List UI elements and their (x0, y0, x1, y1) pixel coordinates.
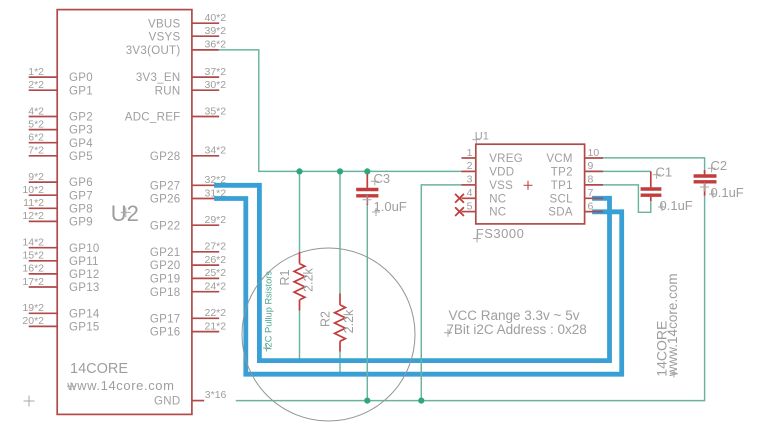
svg-text:9: 9 (588, 160, 594, 172)
U1 pin 2 (VDD) (462, 160, 515, 178)
svg-text:9*2: 9*2 (28, 171, 44, 183)
wire: C3 bottom lead to GND rail (366, 204, 368, 401)
wire: R1 top lead to 3V3 rail (299, 171, 301, 252)
note: I2C pullup resistors (rotated, teal) (263, 271, 274, 352)
svg-text:www.14core.com: www.14core.com (66, 378, 174, 393)
svg-text:VSYS: VSYS (149, 31, 181, 43)
U2 pin 9*2 (GP6) (28, 171, 93, 189)
svg-text:22*2: 22*2 (205, 307, 227, 319)
U2 pin 11*2 (GP8) (23, 197, 93, 215)
U2 pin 22*2 (GP17) (150, 307, 226, 325)
U1 pin 4 (NC) (455, 187, 506, 205)
U1 value label FS3000 (473, 226, 524, 243)
svg-text:5: 5 (467, 200, 473, 212)
svg-text:3*16: 3*16 (205, 389, 227, 401)
svg-text:VCC Range 3.3v ~ 5v: VCC Range 3.3v ~ 5v (449, 308, 580, 323)
U2 pin 36*2 (3V3(OUT)) (126, 39, 227, 57)
svg-text:NC: NC (489, 207, 506, 219)
svg-text:GP14: GP14 (69, 308, 100, 320)
wire: GND rail from U2 GND pin to C2 bottom (237, 195, 705, 400)
svg-text:FS3000: FS3000 (476, 226, 525, 241)
svg-text:GP3: GP3 (69, 125, 93, 137)
U1 reference label (472, 130, 489, 143)
svg-text:GP17: GP17 (150, 313, 181, 325)
svg-text:35*2: 35*2 (205, 105, 227, 117)
svg-text:19*2: 19*2 (22, 302, 44, 314)
junction: 3V3 rail / R1 (296, 168, 302, 174)
svg-text:GP13: GP13 (69, 282, 100, 294)
svg-text:3: 3 (467, 174, 473, 186)
svg-text:40*2: 40*2 (205, 12, 227, 24)
svg-text:2: 2 (467, 160, 473, 172)
wire: R2 top lead to 3V3 rail (339, 171, 341, 293)
svg-text:3V3(OUT): 3V3(OUT) (126, 45, 181, 57)
U1 pin 9 (TP2) (551, 160, 603, 178)
svg-text:SDA: SDA (548, 207, 573, 219)
svg-text:26*2: 26*2 (205, 254, 227, 266)
U2 pin 1*2 (GP0) (28, 66, 93, 84)
wire: C1 bottom lead (650, 201, 652, 213)
svg-text:www.14core.com: www.14core.com (665, 273, 680, 377)
svg-text:10*2: 10*2 (22, 184, 44, 196)
svg-text:C2: C2 (711, 158, 728, 173)
wire: VCM (U1 pin 10) to C2 (603, 158, 705, 174)
svg-text:GP5: GP5 (69, 151, 93, 163)
svg-text:U2: U2 (111, 201, 139, 226)
junction: GND rail / VSS (418, 398, 424, 404)
svg-text:12*2: 12*2 (22, 210, 44, 222)
U2 reference label (111, 201, 139, 226)
svg-text:21*2: 21*2 (205, 320, 227, 332)
svg-text:34*2: 34*2 (205, 145, 227, 157)
U1 pin 6 (SDA) (548, 200, 603, 218)
annotation circle around pull-up resistors (242, 248, 415, 421)
C3 name label (371, 171, 390, 186)
svg-text:GP0: GP0 (69, 72, 93, 84)
capacitor C3 (356, 174, 378, 205)
U2 pin 30*2 (RUN) (155, 79, 227, 97)
svg-text:SCL: SCL (550, 193, 574, 205)
junction: GND rail / C3 (364, 398, 370, 404)
svg-text:TP2: TP2 (551, 167, 573, 179)
resistor R2 (335, 294, 346, 352)
svg-text:1: 1 (467, 147, 473, 159)
svg-text:C3: C3 (374, 171, 391, 186)
svg-text:R2: R2 (318, 311, 332, 327)
wire: SCL bus from U2 GP27 to U1 SCL (thick blue) (217, 185, 610, 360)
U2 pin 2*2 (GP1) (28, 79, 93, 97)
C1 name label (653, 164, 673, 179)
U2 pin 27*2 (GP21) (150, 241, 226, 259)
svg-text:39*2: 39*2 (205, 25, 227, 37)
svg-text:5*2: 5*2 (28, 118, 44, 130)
svg-text:7Bit i2C Address : 0x28: 7Bit i2C Address : 0x28 (446, 322, 586, 337)
svg-text:7*2: 7*2 (28, 145, 44, 157)
svg-text:GP22: GP22 (150, 220, 181, 232)
wire: R2 bottom lead to SDA bus (339, 352, 341, 373)
svg-text:8: 8 (588, 174, 594, 186)
svg-text:14*2: 14*2 (22, 237, 44, 249)
U1 pin 5 (NC) (455, 200, 506, 218)
U2 pin 19*2 (GP14) (22, 302, 100, 320)
svg-text:VCM: VCM (546, 153, 572, 165)
U2 pin 26*2 (GP20) (150, 254, 226, 272)
IC U1 body (FS3000) (476, 144, 585, 224)
U1 pin 1 (VREG) (462, 147, 523, 165)
wire: VSS lead crossing blue bus (420, 355, 422, 380)
svg-text:2.2k: 2.2k (342, 309, 356, 333)
svg-text:GP26: GP26 (150, 194, 181, 206)
svg-text:VBUS: VBUS (148, 18, 181, 30)
U2 pin 16*2 (GP12) (22, 263, 99, 281)
svg-text:3V3_EN: 3V3_EN (136, 72, 181, 84)
wire: TP1 (U1 pin 8) to C1 bottom (603, 185, 651, 212)
svg-text:30*2: 30*2 (205, 79, 227, 91)
IC U2 body (14CORE module) (57, 10, 192, 415)
svg-text:GP20: GP20 (150, 260, 181, 272)
svg-text:GP2: GP2 (69, 112, 93, 124)
svg-text:20*2: 20*2 (22, 315, 44, 327)
note: www.14core.com vertical (665, 273, 680, 377)
C3 origin cross (363, 195, 372, 204)
svg-text:U1: U1 (475, 130, 489, 142)
U2 pin 4*2 (GP2) (28, 105, 93, 123)
U2 part origin cross (24, 396, 35, 407)
svg-text:GP27: GP27 (150, 180, 181, 192)
svg-text:37*2: 37*2 (205, 66, 227, 78)
C2 value 0.1uF (709, 185, 744, 200)
svg-text:25*2: 25*2 (205, 267, 227, 279)
U2 pin 25*2 (GP19) (150, 267, 226, 285)
U2 pin 15*2 (GP11) (22, 250, 98, 268)
U2 pin 29*2 (GP22) (150, 214, 226, 232)
svg-text:14CORE: 14CORE (70, 361, 128, 377)
U2 label www.14core.com (66, 378, 174, 393)
svg-text:24*2: 24*2 (205, 281, 227, 293)
svg-text:0.1uF: 0.1uF (660, 198, 693, 213)
U2 pin 31*2 (GP26) (150, 187, 226, 205)
svg-text:36*2: 36*2 (205, 39, 227, 51)
U2 pin 7*2 (GP5) (28, 145, 93, 163)
svg-text:GP4: GP4 (69, 138, 93, 150)
svg-text:GP15: GP15 (69, 322, 100, 334)
wire: 3V3 net from U2 pin 36 to U1 VDD (219, 50, 462, 171)
C1 value 0.1uF (658, 198, 693, 213)
U2 pin 17*2 (GP13) (22, 276, 99, 294)
svg-text:15*2: 15*2 (22, 250, 44, 262)
svg-text:GP18: GP18 (150, 287, 181, 299)
wire: R1 bottom lead to SCL bus (299, 311, 301, 360)
U2 pin 20*2 (GP15) (22, 315, 99, 333)
svg-text:GP9: GP9 (69, 217, 93, 229)
U1 pin 8 (TP1) (551, 174, 603, 192)
svg-text:GP16: GP16 (150, 327, 181, 339)
svg-text:I2C Pullup Rsistors: I2C Pullup Rsistors (264, 271, 274, 350)
svg-text:GP28: GP28 (150, 151, 181, 163)
wire: VSS net from U1 pin 3 down to GND rail (421, 185, 462, 401)
U2 pin 34*2 (GP28) (150, 145, 226, 163)
junction: 3V3 rail / R2 (337, 168, 343, 174)
svg-text:TP1: TP1 (551, 180, 573, 192)
svg-text:GP8: GP8 (69, 203, 93, 215)
svg-text:ADC_REF: ADC_REF (125, 112, 181, 124)
svg-text:6*2: 6*2 (28, 132, 44, 144)
U2 pin 37*2 (3V3_EN) (136, 66, 226, 84)
U1 origin cross (red) (524, 181, 533, 190)
svg-text:1*2: 1*2 (28, 66, 44, 78)
U2 pin 3*16 (GND) (154, 389, 227, 408)
svg-text:GP12: GP12 (69, 269, 100, 281)
U2 pin 10*2 (GP7) (22, 184, 93, 202)
U2 pin 21*2 (GP16) (150, 320, 226, 338)
capacitor C2 (694, 170, 717, 196)
capacitor C1 (641, 171, 662, 201)
svg-text:7: 7 (588, 187, 594, 199)
wire: C3 lead crossing blue bus (366, 355, 368, 380)
wire: C3 top lead to 3V3 rail (366, 171, 368, 176)
svg-text:2.2k: 2.2k (301, 267, 315, 291)
svg-text:6: 6 (588, 200, 594, 212)
U2 pin 24*2 (GP18) (150, 281, 226, 299)
svg-text:VREG: VREG (489, 153, 523, 165)
svg-text:27*2: 27*2 (205, 241, 227, 253)
U2 pin 14*2 (GP10) (22, 237, 99, 255)
svg-text:GP7: GP7 (69, 190, 93, 202)
svg-text:GP11: GP11 (69, 256, 99, 268)
svg-text:11*2: 11*2 (23, 197, 44, 209)
svg-text:RUN: RUN (155, 85, 181, 97)
svg-text:4: 4 (467, 187, 473, 199)
svg-text:GP19: GP19 (150, 274, 181, 286)
junction: 3V3 rail / C3 (364, 168, 370, 174)
C2 name label (708, 158, 728, 173)
U2 pin 39*2 (VSYS) (149, 25, 227, 43)
resistor R1 (294, 252, 305, 311)
note: I2C address text (444, 322, 587, 337)
wire: TP2 (U1 pin 9) to C1 top (603, 170, 651, 172)
C2 origin cross (700, 183, 709, 192)
svg-text:C1: C1 (656, 164, 673, 179)
svg-text:GP1: GP1 (69, 85, 93, 97)
U2 value label 14CORE (70, 361, 128, 377)
wire: SDA bus from U2 GP26 to U1 SDA (thick blue) (217, 199, 622, 375)
U2 pin 6*2 (GP4) (28, 132, 93, 150)
svg-text:2*2: 2*2 (28, 79, 44, 91)
U2 pin 40*2 (VBUS) (148, 12, 226, 30)
svg-text:16*2: 16*2 (22, 263, 44, 275)
svg-text:GP6: GP6 (69, 177, 93, 189)
U2 pin 32*2 (GP27) (150, 174, 226, 192)
U2 pin 12*2 (GP9) (22, 210, 93, 228)
U2 pin 5*2 (GP3) (28, 118, 93, 136)
svg-text:GND: GND (154, 396, 180, 408)
svg-text:10: 10 (588, 147, 600, 159)
U1 pin 10 (VCM) (546, 147, 603, 165)
svg-text:4*2: 4*2 (28, 105, 44, 117)
svg-text:R1: R1 (278, 269, 292, 285)
svg-text:0.1uF: 0.1uF (711, 185, 744, 200)
U2 pin 35*2 (ADC_REF) (125, 105, 227, 123)
svg-text:VSS: VSS (489, 180, 513, 192)
svg-text:29*2: 29*2 (205, 214, 227, 226)
svg-text:GP21: GP21 (150, 247, 181, 259)
svg-text:17*2: 17*2 (22, 276, 44, 288)
svg-text:VDD: VDD (489, 167, 514, 179)
U1 pin 3 (VSS) (462, 174, 514, 192)
svg-text:GP10: GP10 (69, 243, 100, 255)
svg-text:NC: NC (489, 193, 506, 205)
C3 value 1.0uF (372, 199, 407, 216)
U1 pin 7 (SCL) (550, 187, 603, 205)
